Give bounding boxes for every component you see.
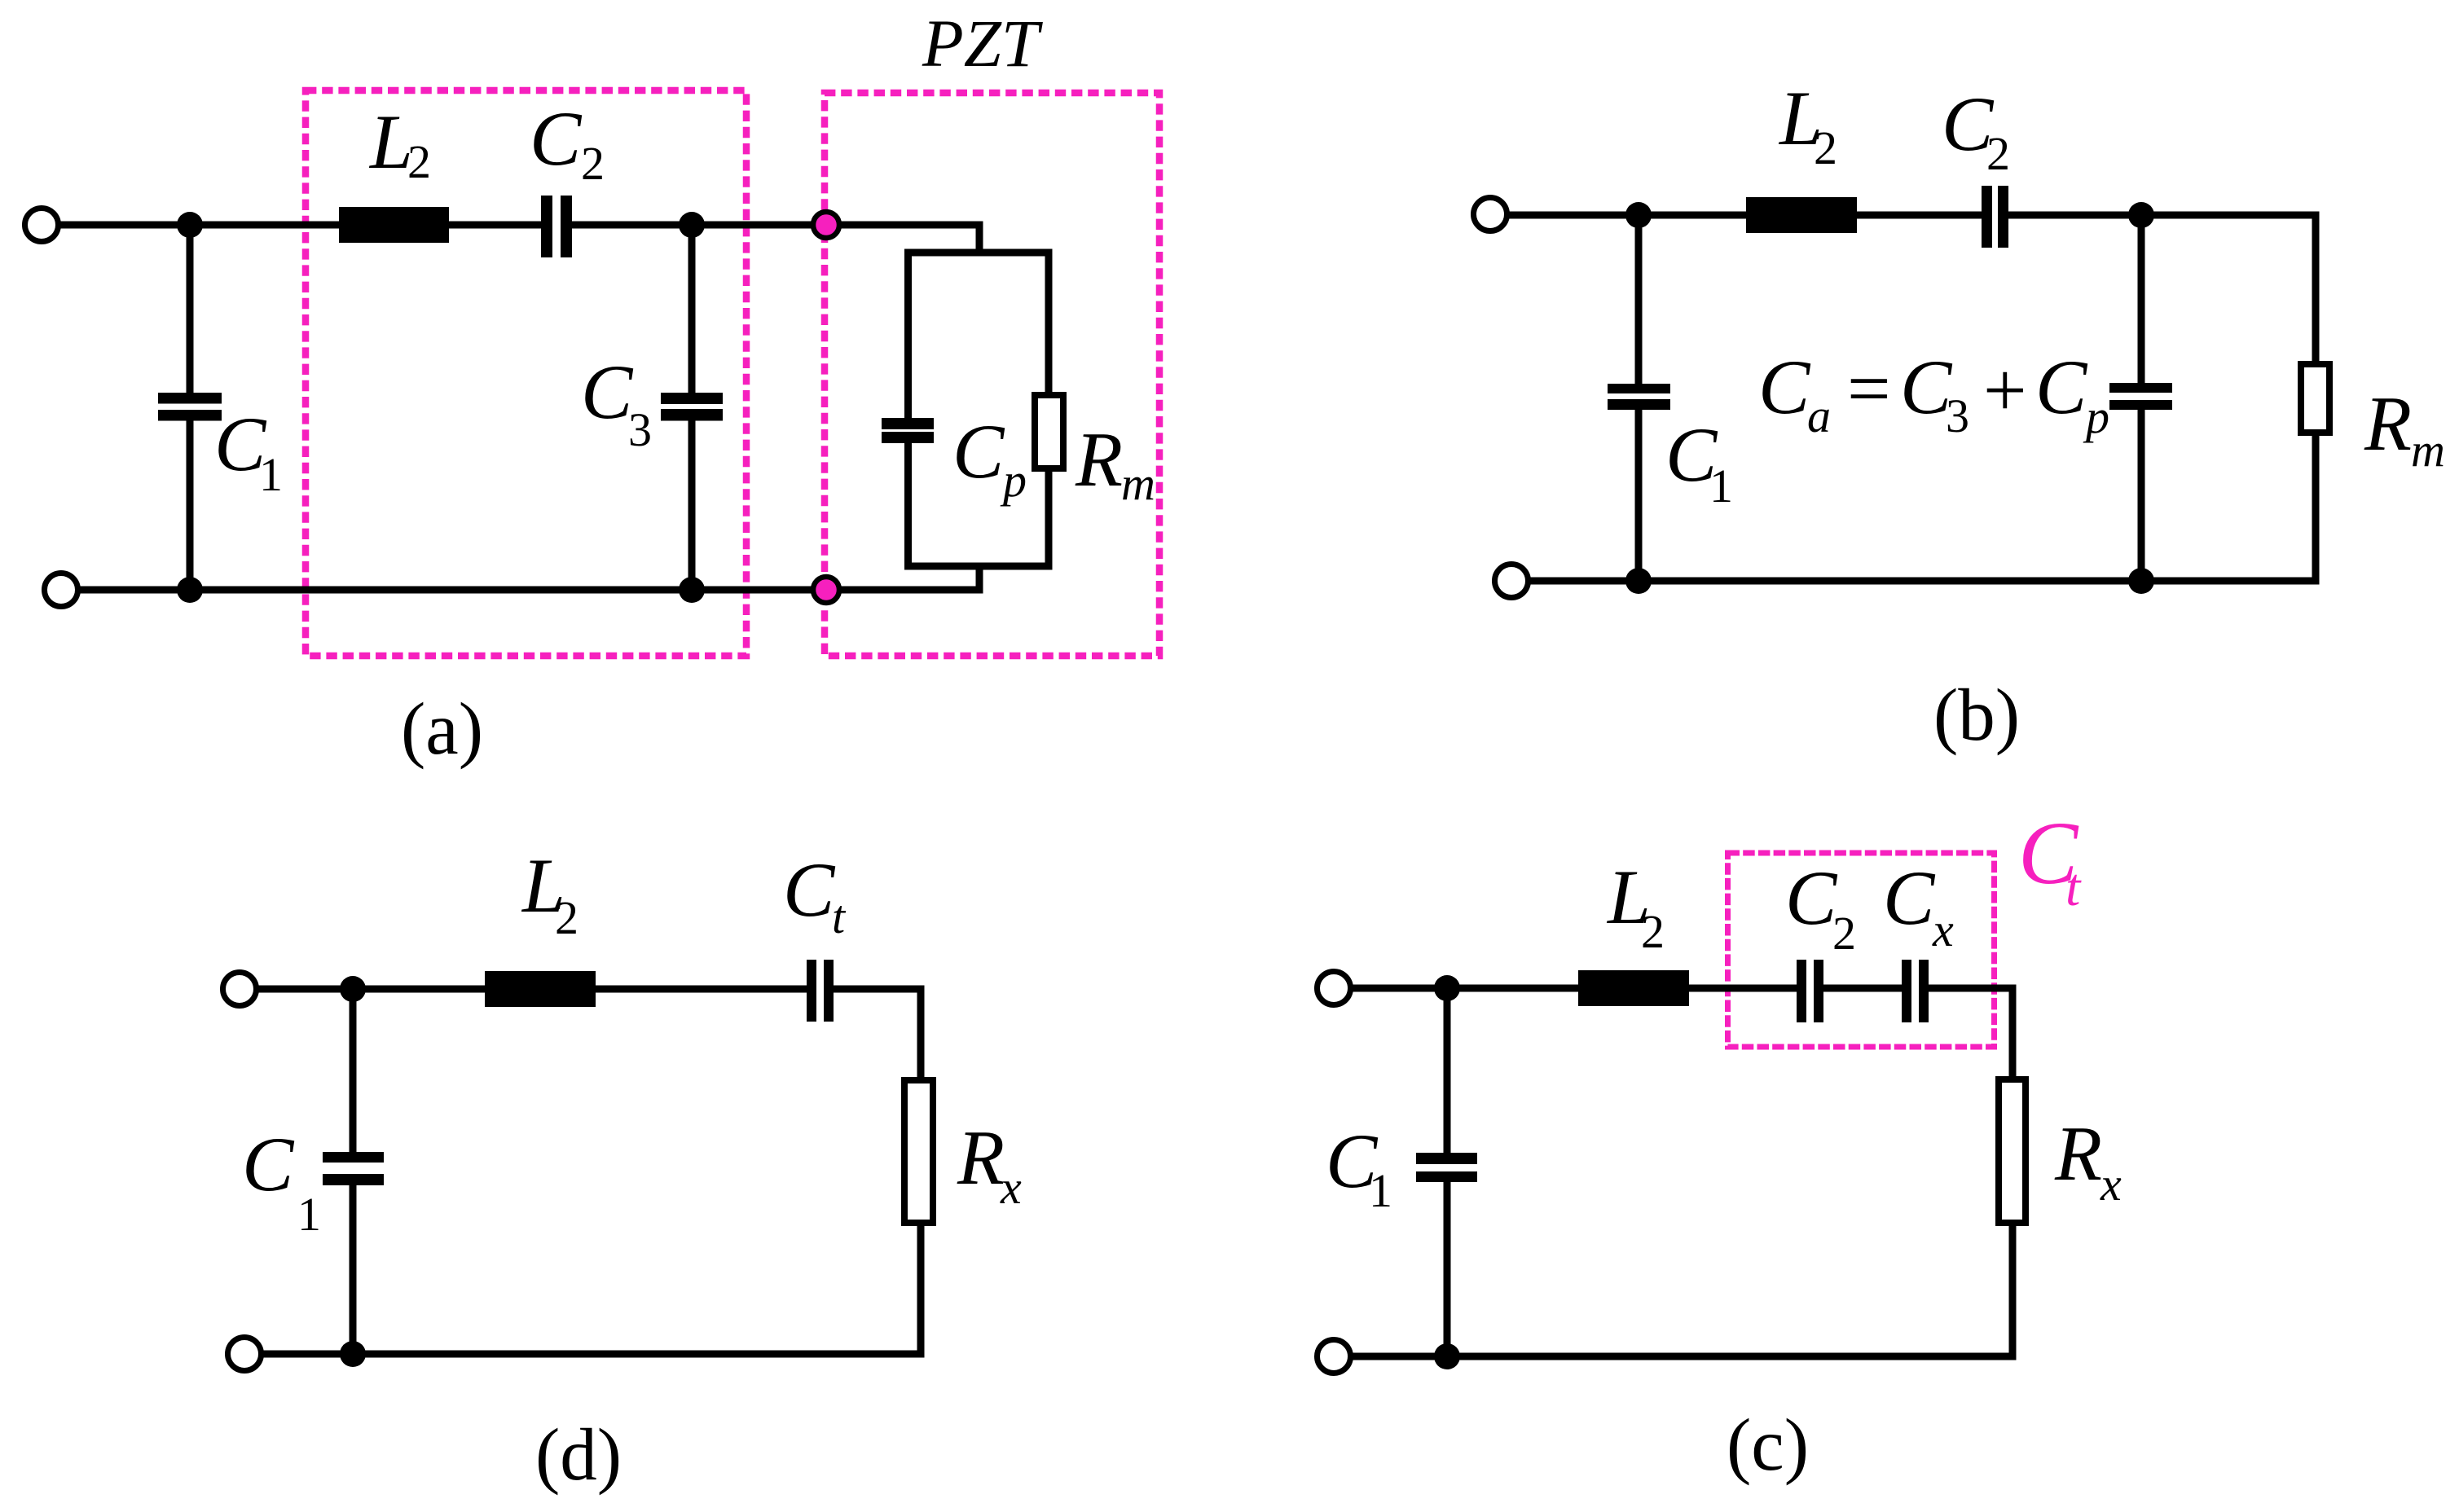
node dot bottom <box>1434 1343 1460 1369</box>
resistor Rx <box>1999 1079 2026 1223</box>
capacitor C2 plates <box>1982 186 1992 248</box>
node dot top-left <box>177 212 203 238</box>
terminal top-left <box>1474 198 1507 231</box>
svg-text:(b): (b) <box>1933 674 2020 756</box>
svg-text:C: C <box>952 408 1005 494</box>
capacitor Ca plates <box>2109 383 2172 393</box>
capacitor C3 plates <box>661 393 723 404</box>
svg-text:x: x <box>1932 903 1954 956</box>
right vertical wire upper <box>2009 985 2017 1082</box>
capacitor Cx plates <box>1902 960 1911 1022</box>
svg-text:(c): (c) <box>1727 1404 1809 1486</box>
terminal bottom-left <box>228 1338 262 1371</box>
svg-text:C: C <box>1758 344 1811 430</box>
svg-text:2: 2 <box>1986 127 2010 180</box>
svg-text:3: 3 <box>1946 389 1969 442</box>
wire top segment 1 <box>1507 212 1986 219</box>
node dot bottom-right <box>679 577 705 603</box>
svg-text:C: C <box>783 846 836 933</box>
PZT loop left leg lower <box>904 443 912 570</box>
svg-text:2: 2 <box>555 891 578 944</box>
dashed matching-network box <box>306 90 746 656</box>
wire top segment 2 <box>2003 212 2320 219</box>
PZT loop right leg upper <box>1045 253 1053 398</box>
svg-text:x: x <box>1000 1161 1022 1214</box>
terminal top-left <box>25 209 59 242</box>
node dot top <box>1434 975 1460 1001</box>
svg-text:C: C <box>1785 855 1838 941</box>
right vertical wire lower <box>2009 1221 2017 1360</box>
svg-text:2: 2 <box>1832 907 1856 960</box>
PZT loop top edge <box>904 249 1053 257</box>
svg-text:C: C <box>530 95 583 182</box>
node dot bottom <box>340 1341 366 1367</box>
capacitor C1 branch wires <box>187 225 194 394</box>
svg-text:2: 2 <box>407 135 431 188</box>
svg-text:=: = <box>1847 345 1891 432</box>
svg-text:m: m <box>1121 457 1155 510</box>
node dot bottom-left <box>1625 568 1652 594</box>
capacitor C2 plates <box>1797 960 1806 1022</box>
svg-text:R: R <box>2364 380 2412 467</box>
svg-text:C: C <box>581 349 634 435</box>
svg-text:C: C <box>242 1121 295 1207</box>
node dot bottom-left <box>177 577 203 603</box>
svg-text:R: R <box>1075 416 1123 503</box>
svg-text:2: 2 <box>581 137 605 190</box>
svg-text:+: + <box>1983 347 2027 433</box>
terminal top-left <box>223 973 257 1006</box>
svg-text:x: x <box>2100 1158 2122 1211</box>
capacitor C1 branch wires <box>1444 988 1451 1154</box>
node dot top-right <box>679 212 705 238</box>
svg-text:a: a <box>1807 389 1831 442</box>
terminal top-left <box>1317 972 1351 1005</box>
wire top segment 2 <box>565 222 979 229</box>
capacitor C2 plates <box>541 196 552 257</box>
capacitor C1 branch wires <box>350 989 357 1154</box>
svg-text:t: t <box>832 890 847 943</box>
PZT loop bottom edge <box>904 563 1053 570</box>
capacitor C1 branch wires <box>1635 215 1643 385</box>
wire top segment 1 <box>256 986 812 993</box>
dashed Ct box <box>1728 853 1995 1047</box>
wire top segment 3 <box>1924 985 2017 992</box>
terminal bottom-left <box>1495 565 1529 598</box>
wire bottom <box>77 587 979 594</box>
svg-text:C: C <box>1883 855 1936 941</box>
svg-text:1: 1 <box>1709 459 1733 512</box>
capacitor C1 plates <box>158 393 222 404</box>
node dot bottom-right <box>2128 568 2154 594</box>
right vertical wire lower <box>2312 431 2320 585</box>
PZT feed wire top <box>976 222 983 257</box>
PZT feed wire bottom <box>976 566 983 594</box>
capacitor C1 plates <box>323 1152 384 1163</box>
inductor L2 <box>1746 197 1857 233</box>
inductor L2 <box>485 971 596 1007</box>
capacitor Cp plates <box>882 418 934 429</box>
terminal bottom-left <box>45 574 78 607</box>
svg-text:2: 2 <box>1641 905 1665 958</box>
svg-text:C: C <box>2035 344 2088 430</box>
resistor Rm <box>1035 395 1063 468</box>
svg-text:R: R <box>2054 1110 2102 1197</box>
resistor Rm <box>2301 364 2329 433</box>
svg-text:R: R <box>957 1114 1005 1201</box>
svg-text:3: 3 <box>628 403 652 456</box>
wire bottom <box>1350 1353 2017 1360</box>
magenta node bottom <box>813 577 839 603</box>
right vertical wire lower <box>917 1221 925 1358</box>
dashed PZT box <box>825 93 1159 656</box>
svg-text:(a): (a) <box>401 688 483 770</box>
wire bottom <box>1528 578 2320 585</box>
wire top segment 2 <box>829 986 925 993</box>
capacitor C3 branch wires <box>688 225 696 394</box>
inductor L2 <box>339 207 449 243</box>
svg-text:PZT: PZT <box>922 6 1044 81</box>
node dot top-right <box>2128 202 2154 228</box>
node dot top <box>340 976 366 1002</box>
svg-text:1: 1 <box>259 448 283 501</box>
svg-text:m: m <box>2411 424 2445 477</box>
PZT loop left leg upper <box>904 253 912 420</box>
svg-text:p: p <box>2083 390 2109 443</box>
magenta node top <box>813 212 839 238</box>
wire top segment 1 <box>58 222 548 229</box>
wire bottom <box>261 1351 925 1358</box>
terminal bottom-left <box>1317 1340 1351 1374</box>
svg-text:2: 2 <box>1814 121 1837 174</box>
capacitor Ct plates <box>807 960 816 1022</box>
svg-text:(d): (d) <box>535 1413 622 1496</box>
svg-text:1: 1 <box>1369 1164 1392 1217</box>
svg-text:t: t <box>2065 858 2082 917</box>
right vertical wire upper <box>917 986 925 1083</box>
svg-text:p: p <box>1000 454 1027 507</box>
capacitor C1 plates <box>1416 1153 1477 1164</box>
PZT loop right leg lower <box>1045 465 1053 570</box>
capacitor Ca branch wires <box>2138 215 2145 385</box>
right vertical wire upper <box>2312 212 2320 367</box>
svg-text:1: 1 <box>297 1188 321 1241</box>
node dot top-left <box>1625 202 1652 228</box>
svg-text:L: L <box>368 99 413 185</box>
resistor Rx <box>904 1080 933 1223</box>
wire top segment 1 <box>1350 985 1801 992</box>
wire top segment 2 <box>1819 985 1907 992</box>
capacitor C1 plates <box>1608 384 1670 393</box>
inductor L2 <box>1578 970 1689 1006</box>
